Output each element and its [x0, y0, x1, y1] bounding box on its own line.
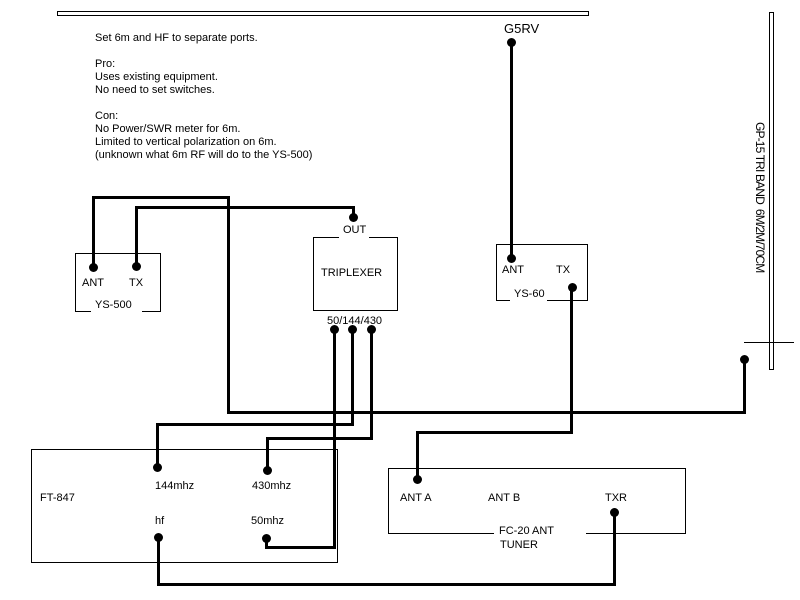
label YS-500 (on bottom border) — [91, 310, 142, 313]
annotation text block — [95, 32, 312, 162]
node: YS-60 TX dot — [568, 283, 577, 292]
label TRIPLEXER — [321, 268, 382, 279]
box U3: YS-60 SWR meter — [496, 244, 588, 301]
pin label OUT (on top border) — [339, 236, 369, 239]
node: FT-847 430mhz dot — [263, 466, 272, 475]
wire: long vertical at x228 — [227, 196, 230, 414]
pin label 50mhz — [251, 516, 284, 527]
label FT-847 — [40, 493, 75, 504]
wire: horizontal at y207 to triplexer — [135, 206, 355, 209]
wire: YS-60 TX down — [570, 287, 573, 434]
pin label TXR — [605, 493, 627, 504]
pin label 50/144/430 — [327, 316, 382, 327]
wire: bottom horizontal at y583 — [157, 583, 616, 586]
node: FC-20 ANT A dot — [413, 475, 422, 484]
wire: YS-500 ANT up — [92, 196, 95, 269]
wire: down into FC-20 ANT A — [416, 431, 419, 479]
node: G5RV feedpoint dot — [507, 38, 516, 47]
pin label TX (YS-500) — [129, 278, 143, 289]
label TUNER — [500, 540, 538, 551]
node: FT-847 hf dot — [154, 533, 163, 542]
pin label TX (YS-60) — [556, 265, 570, 276]
box U4: FT-847 transceiver — [31, 449, 338, 563]
node: YS-500 TX dot — [132, 262, 141, 271]
node: YS-500 ANT dot — [89, 263, 98, 272]
wire: down into TRIPLEXER OUT — [352, 206, 355, 219]
wire: TRIPLEXER 430 port vertical — [370, 329, 373, 439]
node: TRIPLEXER 430 dot — [367, 325, 376, 334]
label G5RV — [504, 22, 539, 35]
wire: horizontal at y196 — [92, 196, 230, 199]
wire: up into 50mhz port — [265, 538, 268, 549]
pin label ANT (YS-500) — [82, 278, 104, 289]
antenna A1: G5RV dipole element (top bar) — [57, 11, 589, 16]
node: TRIPLEXER 50 dot — [330, 325, 339, 334]
wire: TRIPLEXER 144 port vertical — [351, 329, 354, 426]
node: FT-847 50mhz dot — [262, 534, 271, 543]
wire: up to GP-15 feed dot — [743, 359, 746, 414]
pin label 430mhz — [252, 481, 291, 492]
node: GP-15 feed dot — [740, 355, 749, 364]
node: YS-60 ANT dot — [507, 254, 516, 263]
box U5: FC-20 ANT TUNER — [388, 468, 686, 534]
wire: down into 430mhz port — [266, 437, 269, 471]
pin label ANT (YS-60) — [502, 265, 524, 276]
node: FC-20 TXR dot — [610, 508, 619, 517]
wire: G5RV feedline down to YS-60 ANT — [510, 42, 513, 258]
wire: long horizontal at y411 to GP-15 — [227, 411, 746, 414]
wire: YS-500 TX up — [135, 206, 138, 267]
label FC-20 ANT (on bottom border) — [494, 532, 586, 535]
wire: horizontal run to FC-20 ANT A — [416, 431, 573, 434]
wire: horizontal at y438 to 430mhz — [266, 437, 373, 440]
pin label ANT B — [488, 493, 520, 504]
node: FT-847 144mhz dot — [153, 463, 162, 472]
wire: horizontal at y422 to 144mhz — [156, 423, 354, 426]
wire: down into 144mhz port — [156, 423, 159, 468]
pin label hf — [155, 516, 164, 527]
wire: TRIPLEXER 50 port long vertical — [333, 329, 336, 549]
box U2: TRIPLEXER — [313, 237, 398, 311]
label YS-60 (on bottom border) — [510, 299, 547, 302]
pin label 144mhz — [155, 481, 194, 492]
node: TRIPLEXER 144 dot — [348, 325, 357, 334]
label GP-15 TRI BAND 6M/2M/70CM (vertical) — [753, 122, 766, 272]
wire: up into FC-20 TXR — [613, 512, 616, 586]
GP-15 radial line — [744, 342, 794, 343]
antenna A2: GP-15 tri-band vertical element — [769, 12, 774, 370]
node: TRIPLEXER OUT dot — [349, 213, 358, 222]
box U1: YS-500 SWR meter — [75, 253, 161, 312]
pin label ANT A — [400, 493, 432, 504]
wire: horizontal at y547 to 50mhz — [265, 546, 336, 549]
wire: FT-847 hf down — [157, 537, 160, 586]
